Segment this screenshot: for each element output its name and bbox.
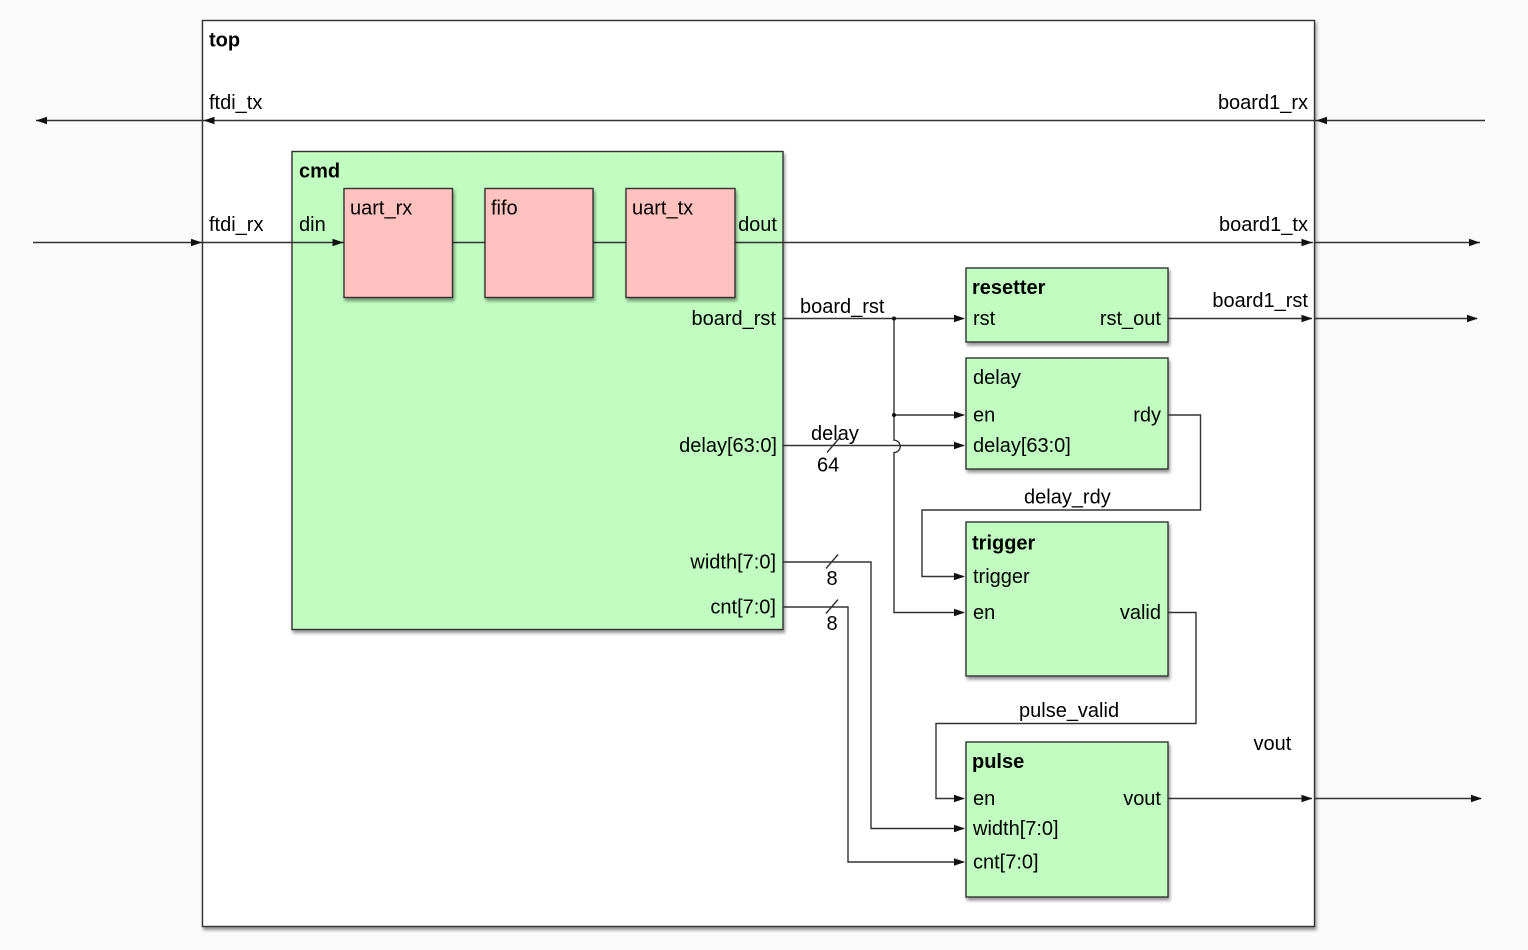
- svg-text:64: 64: [817, 455, 839, 477]
- svg-text:top: top: [209, 30, 240, 52]
- svg-text:en: en: [973, 788, 995, 810]
- svg-text:en: en: [973, 602, 995, 624]
- svg-text:delay[63:0]: delay[63:0]: [679, 435, 777, 457]
- svg-text:valid: valid: [1120, 602, 1161, 624]
- svg-text:delay_rdy: delay_rdy: [1024, 487, 1111, 509]
- svg-text:rst_out: rst_out: [1100, 308, 1162, 330]
- svg-text:8: 8: [827, 613, 838, 635]
- svg-text:width[7:0]: width[7:0]: [972, 818, 1059, 840]
- svg-text:fifo: fifo: [491, 198, 518, 220]
- svg-text:din: din: [299, 214, 326, 236]
- svg-text:board_rst: board_rst: [692, 308, 777, 330]
- svg-text:rdy: rdy: [1133, 405, 1161, 427]
- svg-text:resetter: resetter: [972, 277, 1046, 299]
- svg-text:uart_rx: uart_rx: [350, 198, 412, 220]
- svg-text:pulse_valid: pulse_valid: [1019, 700, 1119, 722]
- svg-text:pulse: pulse: [972, 751, 1024, 773]
- svg-text:width[7:0]: width[7:0]: [689, 552, 776, 574]
- svg-text:dout: dout: [738, 214, 777, 236]
- svg-text:trigger: trigger: [973, 566, 1030, 588]
- svg-text:board1_rx: board1_rx: [1218, 92, 1308, 114]
- svg-text:ftdi_rx: ftdi_rx: [209, 214, 263, 236]
- svg-text:board1_tx: board1_tx: [1219, 214, 1308, 236]
- svg-text:trigger: trigger: [972, 533, 1036, 555]
- svg-text:vout: vout: [1254, 733, 1292, 755]
- svg-text:8: 8: [827, 568, 838, 590]
- svg-text:delay: delay: [973, 367, 1021, 389]
- svg-text:cnt[7:0]: cnt[7:0]: [973, 852, 1039, 874]
- svg-text:cmd: cmd: [299, 161, 340, 183]
- svg-text:cnt[7:0]: cnt[7:0]: [710, 597, 776, 619]
- svg-text:delay: delay: [811, 423, 859, 445]
- svg-text:uart_tx: uart_tx: [632, 198, 693, 220]
- svg-text:delay[63:0]: delay[63:0]: [973, 435, 1071, 457]
- svg-text:board_rst: board_rst: [800, 296, 885, 318]
- svg-text:board1_rst: board1_rst: [1212, 290, 1308, 312]
- svg-text:ftdi_tx: ftdi_tx: [209, 92, 262, 114]
- svg-text:vout: vout: [1123, 788, 1161, 810]
- svg-text:en: en: [973, 405, 995, 427]
- svg-text:rst: rst: [973, 308, 996, 330]
